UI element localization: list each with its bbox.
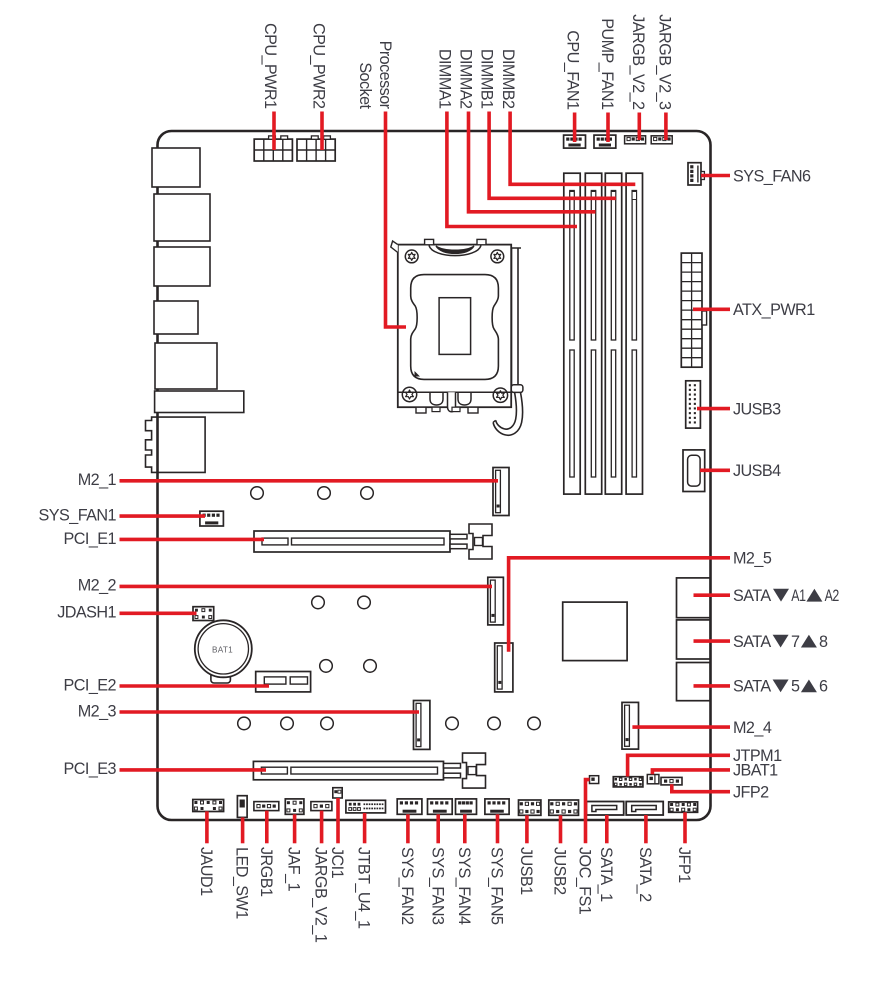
svg-text:LED_SW1: LED_SW1 [233, 847, 251, 919]
svg-text:JARGB_V2_1: JARGB_V2_1 [312, 847, 330, 943]
svg-text:PUMP_FAN1: PUMP_FAN1 [598, 18, 616, 110]
svg-text:M2_2: M2_2 [78, 576, 117, 594]
svg-text:SYS_FAN4: SYS_FAN4 [455, 847, 473, 925]
svg-text:JBAT1: JBAT1 [733, 762, 778, 780]
svg-text:SYS_FAN5: SYS_FAN5 [488, 847, 506, 925]
svg-text:PCI_E2: PCI_E2 [64, 676, 117, 694]
svg-text:JUSB4: JUSB4 [733, 462, 781, 480]
svg-text:DIMMA2: DIMMA2 [457, 49, 475, 109]
svg-text:CPU_PWR2: CPU_PWR2 [310, 23, 328, 109]
svg-text:CPU_FAN1: CPU_FAN1 [564, 30, 582, 110]
svg-text:JUSB3: JUSB3 [733, 400, 781, 418]
svg-text:SYS_FAN6: SYS_FAN6 [733, 167, 811, 185]
svg-text:M2_3: M2_3 [78, 702, 117, 720]
svg-text:JCI1: JCI1 [328, 847, 346, 879]
svg-text:JUSB2: JUSB2 [551, 847, 569, 895]
svg-text:BAT1: BAT1 [212, 646, 233, 655]
svg-text:A1: A1 [791, 587, 806, 605]
svg-text:JRGB1: JRGB1 [257, 847, 275, 897]
svg-text:SYS_FAN2: SYS_FAN2 [398, 847, 416, 925]
svg-text:SATA_2: SATA_2 [636, 847, 654, 902]
svg-text:DIMMB1: DIMMB1 [478, 49, 496, 109]
svg-text:JOC_FS1: JOC_FS1 [576, 847, 594, 915]
svg-text:M2_5: M2_5 [733, 550, 772, 568]
svg-text:A2: A2 [825, 587, 840, 605]
svg-text:Processor: Processor [376, 41, 394, 110]
svg-text:Socket: Socket [356, 62, 374, 109]
svg-text:JFP2: JFP2 [733, 784, 769, 802]
svg-text:JAF_1: JAF_1 [285, 847, 303, 892]
svg-text:SATA: SATA [733, 678, 771, 696]
svg-text:JARGB_V2_2: JARGB_V2_2 [629, 14, 647, 110]
svg-text:SYS_FAN1: SYS_FAN1 [39, 507, 117, 525]
svg-text:6: 6 [819, 678, 828, 696]
svg-text:M2_4: M2_4 [733, 719, 772, 737]
svg-text:CPU_PWR1: CPU_PWR1 [261, 23, 279, 109]
svg-text:JUSB1: JUSB1 [517, 847, 535, 895]
svg-text:M2_1: M2_1 [78, 471, 117, 489]
svg-text:DIMMB2: DIMMB2 [499, 49, 517, 109]
svg-text:5: 5 [791, 678, 800, 696]
svg-text:SYS_FAN3: SYS_FAN3 [428, 847, 446, 925]
svg-text:8: 8 [819, 633, 828, 651]
svg-text:SATA: SATA [733, 587, 771, 605]
svg-text:JFP1: JFP1 [675, 847, 693, 883]
svg-text:JTBT_U4_1: JTBT_U4_1 [355, 847, 373, 929]
svg-text:JARGB_V2_3: JARGB_V2_3 [655, 14, 673, 110]
svg-text:PCI_E3: PCI_E3 [64, 760, 117, 778]
svg-text:ATX_PWR1: ATX_PWR1 [733, 301, 815, 319]
svg-text:SATA: SATA [733, 633, 771, 651]
svg-text:JAUD1: JAUD1 [197, 847, 215, 896]
svg-text:SATA_1: SATA_1 [597, 847, 615, 902]
svg-text:7: 7 [791, 633, 800, 651]
svg-text:JDASH1: JDASH1 [57, 603, 116, 621]
svg-text:DIMMA1: DIMMA1 [435, 49, 453, 109]
svg-text:PCI_E1: PCI_E1 [64, 530, 117, 548]
